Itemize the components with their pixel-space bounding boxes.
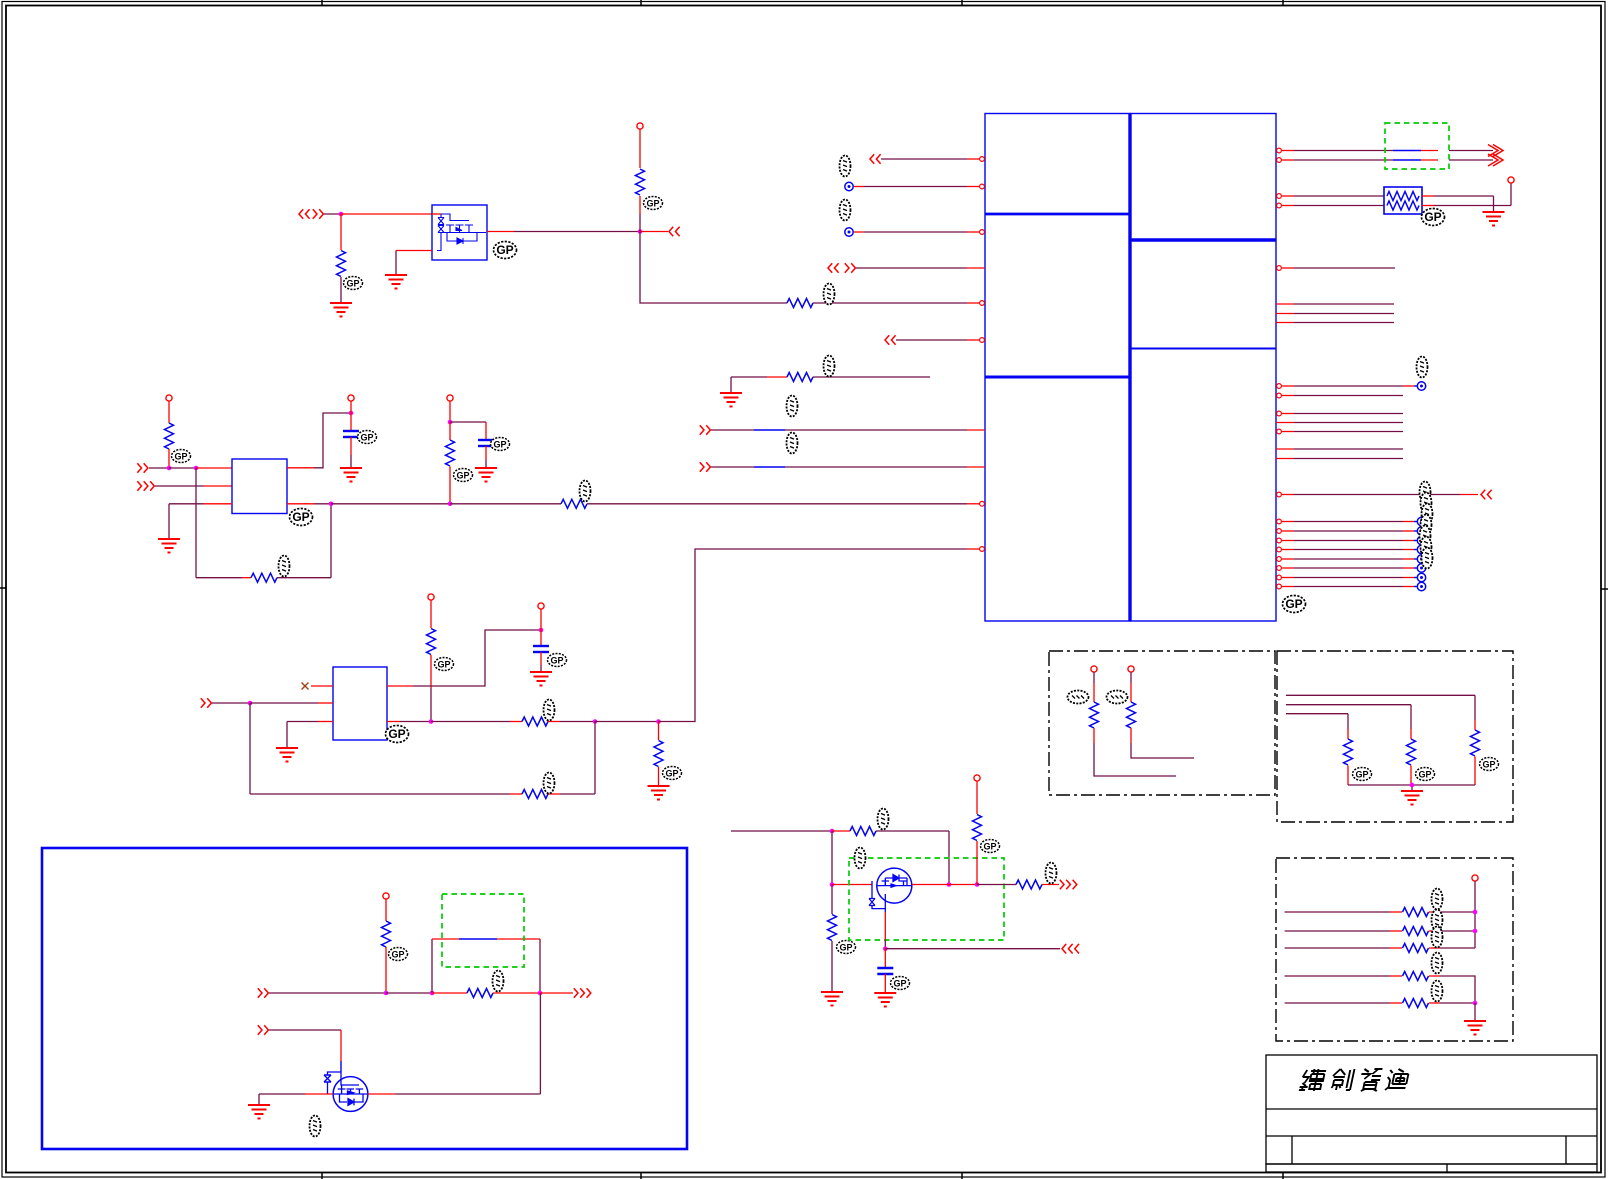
resistor R28 series xyxy=(432,989,540,998)
label R7 designator xyxy=(580,481,591,502)
test pad TP3 xyxy=(1277,382,1426,390)
choke L1 dual resistor pack xyxy=(1384,187,1422,214)
resistor R17 xyxy=(1344,714,1353,785)
label R3 designator xyxy=(824,284,835,305)
pin U3 out2 stub xyxy=(387,721,431,723)
resistor R8 pull-up xyxy=(427,600,436,722)
resistor R12 to ground floating net xyxy=(720,373,930,407)
resistor R2 pull-up xyxy=(636,129,645,232)
wire B net3 xyxy=(1286,713,1348,715)
pin U1 cluster pin 7 with test pad xyxy=(1277,573,1426,581)
pin U1 R7 stub wire xyxy=(1276,313,1394,315)
power VCC6 xyxy=(538,603,544,609)
pin Q1 source stub xyxy=(396,250,432,252)
power VCC5 xyxy=(428,594,434,600)
svg-text:GP: GP xyxy=(1285,597,1302,611)
pin U3 in stub xyxy=(250,702,333,704)
resistor R6 xyxy=(446,422,455,504)
pin U3 out1 stub xyxy=(387,685,413,687)
junction J9 xyxy=(248,701,253,706)
wire net Q5 top left xyxy=(731,830,832,832)
label R18 designator xyxy=(1432,889,1443,910)
pin U1 R8 stub wire xyxy=(1276,322,1394,324)
label net designator B xyxy=(787,433,798,454)
power VCC8 xyxy=(1091,666,1097,672)
power VCC11 xyxy=(974,775,980,781)
title block xyxy=(1266,1055,1597,1172)
junction J18 xyxy=(830,829,835,834)
module box blue xyxy=(42,848,687,1149)
label GP C2 xyxy=(491,438,510,451)
filter FB1 green box xyxy=(1385,123,1449,169)
pin U1 R13 stub wire xyxy=(1277,429,1403,434)
resistor R4 pull-up xyxy=(165,401,174,468)
pin U1 cluster pin 3 with test pad xyxy=(1277,536,1426,544)
junction J21 xyxy=(883,946,888,951)
wire Q5 source down xyxy=(884,912,886,949)
pin U1 L10 circle xyxy=(980,501,985,506)
svg-text:GP: GP xyxy=(346,279,359,289)
junction J22 xyxy=(975,882,980,887)
label GP C3 xyxy=(548,654,567,667)
ground R24 xyxy=(821,992,843,1006)
ground Q1 source xyxy=(385,275,407,289)
wire feedback J4 down xyxy=(195,468,197,578)
IC U3 box xyxy=(333,667,387,740)
svg-text:GP: GP xyxy=(983,842,996,852)
pin U1 R16 wire with node arrow xyxy=(1277,490,1492,500)
wire Q1 source to ground xyxy=(395,251,397,276)
junction J6 xyxy=(349,411,354,416)
junction J17 xyxy=(1473,1001,1478,1006)
resistor R18 series xyxy=(1285,908,1475,917)
wire J1 to Q1 gate xyxy=(341,213,432,215)
label GP R2 xyxy=(644,197,663,210)
wire Q5 drain to J22 xyxy=(912,884,977,886)
wire VCC3 to J6 xyxy=(350,401,352,413)
wire J21 to off-page arrow xyxy=(885,944,1079,954)
resistor R23 xyxy=(832,827,949,836)
wire B common to ground xyxy=(1348,785,1475,791)
pin U1 L9 with node arrow and blue segment xyxy=(700,462,985,472)
label R22 designator xyxy=(1432,981,1443,1002)
label TP1 designator xyxy=(840,156,851,177)
junction J15 xyxy=(1473,910,1478,915)
ground R10 xyxy=(648,786,670,800)
pin U2 gnd stub and ground xyxy=(158,504,232,553)
wire B net2 xyxy=(1286,704,1411,706)
option box A dash-dot xyxy=(1049,651,1275,795)
wire VCC6 to J10 xyxy=(540,609,542,630)
junction J12 xyxy=(593,719,598,724)
resistor R25 pull-up xyxy=(973,781,982,885)
resistor R13 pull-up xyxy=(1090,672,1177,776)
power VCC1 xyxy=(637,123,643,129)
svg-text:GP: GP xyxy=(437,660,450,670)
junction J5 xyxy=(329,502,334,507)
pin U1 L4 bidir arrow xyxy=(828,263,985,273)
pin U1 R3 wire to choke xyxy=(1277,194,1384,199)
label GP R16 xyxy=(1416,768,1435,781)
svg-text:GP: GP xyxy=(174,452,187,462)
label R5 designator xyxy=(279,556,290,577)
wire J5 to J7 xyxy=(331,503,450,505)
resistor R16 xyxy=(1407,705,1416,785)
svg-text:GP: GP xyxy=(646,199,659,209)
pin U1 L5 circle xyxy=(980,301,985,306)
junction J14 xyxy=(1410,783,1415,788)
junction J4 xyxy=(194,466,199,471)
label TP3 designator xyxy=(1417,357,1428,378)
svg-text:GP: GP xyxy=(493,440,506,450)
junction J11 xyxy=(429,719,434,724)
junction J3 xyxy=(167,466,172,471)
wire VCC4 down xyxy=(449,401,451,422)
junction J7 xyxy=(448,502,453,507)
label GP R27 xyxy=(389,948,408,961)
junction J2 xyxy=(638,229,643,234)
label R9 designator xyxy=(544,700,555,721)
option box B dash-dot xyxy=(1277,651,1513,822)
wire U2 out1 to C1 node xyxy=(314,413,351,468)
subcircuit Q5 green box xyxy=(849,858,1004,940)
label GP R8 xyxy=(435,658,454,671)
pin U3 gnd stub and ground xyxy=(276,722,333,762)
label GP R4 xyxy=(172,450,191,463)
ground C4 xyxy=(874,993,896,1007)
wire feedback up to J12 xyxy=(594,722,596,795)
pin U1 cluster pin 1 with test pad xyxy=(1277,517,1426,525)
wire VCC10 down xyxy=(1474,881,1476,948)
resistor R22 series xyxy=(1285,999,1475,1008)
pin Q1 gate stub xyxy=(432,213,441,215)
wire choke out1 to ground xyxy=(1422,196,1494,212)
label GP R6 xyxy=(454,469,473,482)
label GP L1 xyxy=(1422,209,1445,226)
junction J10 xyxy=(539,628,544,633)
wire R23 down to drain xyxy=(948,831,950,885)
wire J23 to J24 xyxy=(386,992,432,994)
node IN1 off-page connector xyxy=(299,209,323,219)
pin U1 cluster pin 2 with test pad xyxy=(1277,527,1426,535)
pin U1 L8 with node arrow and blue segment xyxy=(700,425,985,435)
wire out2 to J5 xyxy=(314,503,331,505)
ground box B xyxy=(1401,791,1423,805)
transistor Q2 MOSFET xyxy=(324,1072,368,1111)
label GP R15 xyxy=(1480,758,1499,771)
wire choke out2 to VCC7 xyxy=(1422,183,1511,206)
power VCC4 xyxy=(447,395,453,401)
label TP2 designator xyxy=(840,200,851,221)
pin U1 R12 stub wire xyxy=(1276,422,1403,424)
wire B net1 xyxy=(1286,694,1475,696)
svg-text:GP: GP xyxy=(360,433,373,443)
pin U1 R11 stub wire xyxy=(1277,411,1403,416)
resistor R19 series xyxy=(1285,927,1475,936)
junction J8 xyxy=(448,420,453,425)
label Q5 designator xyxy=(855,848,866,869)
node IN6 arrow xyxy=(258,1025,341,1035)
pin U1 L1 with node arrow xyxy=(870,154,984,164)
wire feedback J9 down xyxy=(249,703,251,794)
svg-text:GP: GP xyxy=(665,769,678,779)
label R12 designator xyxy=(824,356,835,377)
wire J12 to J13 xyxy=(595,721,659,723)
pin U2 in1 stub xyxy=(196,467,232,469)
label net designator A xyxy=(787,396,798,417)
label GP R1 xyxy=(344,277,363,290)
label R20 designator xyxy=(1432,927,1443,948)
svg-text:GP: GP xyxy=(1355,770,1368,780)
resistor R14 pull-up xyxy=(1127,672,1195,758)
junction J1 xyxy=(339,212,344,217)
pin U2 out1 stub xyxy=(287,467,314,469)
label GP R24 xyxy=(837,941,856,954)
option box C dash-dot xyxy=(1276,858,1513,1041)
label R23 designator xyxy=(878,809,889,830)
ground choke xyxy=(1483,212,1505,226)
wire to ground box C xyxy=(1474,1003,1476,1021)
pin U3 nc stub with no-connect X xyxy=(302,683,334,690)
power VCC3 xyxy=(348,395,354,401)
company name text xyxy=(1299,1069,1410,1091)
label GP C1 xyxy=(358,431,377,444)
junction J20 xyxy=(830,882,835,887)
label R21 designator xyxy=(1432,953,1443,974)
jumper green box xyxy=(442,894,524,967)
capacitor C3 xyxy=(533,630,549,672)
label GP U1 xyxy=(1283,596,1306,613)
transistor Q5 MOSFET xyxy=(869,868,912,912)
node IN5 arrow xyxy=(258,988,386,998)
svg-text:GP: GP xyxy=(388,727,405,741)
label Q2 designator xyxy=(310,1116,321,1137)
pin stub U1 left y549 xyxy=(967,548,980,550)
ground C3 xyxy=(530,672,552,686)
svg-text:GP: GP xyxy=(1424,210,1441,224)
junction J13 xyxy=(656,719,661,724)
svg-text:GP: GP xyxy=(893,979,906,989)
resistor R27 pull-up xyxy=(382,899,391,993)
resistor R1 xyxy=(337,214,346,303)
power VCC2 xyxy=(166,395,172,401)
resistor R24 to ground xyxy=(828,885,837,993)
wire J2 down-right to U1 xyxy=(640,232,787,304)
resistor R5 feedback xyxy=(196,573,331,582)
junction J19 xyxy=(947,882,952,887)
label R19 designator xyxy=(1432,910,1443,931)
ground box C xyxy=(1464,1021,1486,1035)
label GP U3 xyxy=(386,726,409,743)
label GP Q1 xyxy=(494,242,517,259)
pin U1 R4 wire to choke xyxy=(1277,203,1384,208)
wire J18 down to J20 xyxy=(831,831,833,885)
resistor R7 series xyxy=(450,499,980,508)
IC U2 box xyxy=(232,459,287,514)
label R11 designator xyxy=(544,773,555,794)
test pad TP1 xyxy=(845,182,985,190)
resistor R26 series to output xyxy=(977,880,1077,890)
wire Q1 drain to junction J2 xyxy=(514,231,640,233)
ground C2 xyxy=(475,468,497,482)
wire IN6 to Q2 gate xyxy=(340,1030,342,1072)
resistor R20 series xyxy=(1285,944,1475,953)
svg-text:GP: GP xyxy=(1482,760,1495,770)
label GP U2 xyxy=(290,509,313,526)
pin U1 R1 wire to connector xyxy=(1277,148,1493,153)
label R28 designator xyxy=(493,971,504,992)
label GP R25 xyxy=(981,840,1000,853)
transistor Q1 dual-MOSFET package xyxy=(385,205,487,289)
wire J20 to Q5 gate xyxy=(832,884,872,886)
pin U1 R10 stub wire xyxy=(1277,393,1403,398)
svg-text:GP: GP xyxy=(1418,770,1431,780)
label GP R10 xyxy=(663,767,682,780)
pin U1 R6 stub wire xyxy=(1276,303,1394,305)
pin U1 L6 with node arrow xyxy=(885,335,984,345)
pin U1 cluster pin 6 with test pad xyxy=(1277,564,1426,572)
power VCC10 xyxy=(1472,875,1478,881)
label cluster designators stack xyxy=(1420,482,1433,569)
capacitor C2 xyxy=(450,422,494,468)
label R26 designator xyxy=(1046,863,1057,884)
wire feedback up to J5 xyxy=(330,504,332,578)
label R14 designator xyxy=(1107,691,1128,704)
capacitor C1 xyxy=(343,413,359,468)
node OUT1 arrow xyxy=(540,988,591,998)
junction J25 xyxy=(538,991,543,996)
ground C1 xyxy=(340,468,362,482)
node NET1 off-page arrow xyxy=(640,227,680,237)
resistor R3 series xyxy=(787,299,980,308)
pin Q1 drain stub xyxy=(487,231,514,233)
resistor R15 xyxy=(1471,695,1480,785)
pin U2 out2 stub xyxy=(287,503,314,505)
svg-text:GP: GP xyxy=(292,510,309,524)
resistor R21 series xyxy=(1285,972,1475,1004)
svg-text:GP: GP xyxy=(839,943,852,953)
junction J16 xyxy=(1473,929,1478,934)
wire Q2 drain to J25 xyxy=(368,993,540,1094)
label GP R17 xyxy=(1353,768,1372,781)
resistor R11 feedback xyxy=(250,790,595,799)
wire Q2 source to ground xyxy=(259,1094,333,1105)
capacitor C4 xyxy=(877,949,893,993)
wire IN1 to junction xyxy=(324,213,341,215)
wire out1 to C3 node xyxy=(413,630,541,686)
node IN3 arrow xyxy=(137,481,232,491)
junction J24 xyxy=(430,991,435,996)
junction J23 xyxy=(384,991,389,996)
pin U1 R14 stub wire xyxy=(1276,448,1403,450)
power VCC12 xyxy=(383,893,389,899)
label R13 designator xyxy=(1068,691,1089,704)
svg-text:GP: GP xyxy=(391,950,404,960)
node IN2 arrow xyxy=(137,463,169,473)
pin U1 cluster pin 8 with test pad xyxy=(1277,582,1426,590)
svg-text:GP: GP xyxy=(550,656,563,666)
pin U1 L11 circle xyxy=(980,547,985,552)
zener D1 at Q2 gate xyxy=(324,1072,341,1094)
pin U1 R2 wire to connector xyxy=(1277,158,1493,163)
svg-text:GP: GP xyxy=(496,243,513,257)
power VCC9 xyxy=(1128,666,1134,672)
power VCC7 xyxy=(1508,177,1514,183)
resistor R10 to ground xyxy=(654,722,663,787)
wire J13 to U1 pin xyxy=(659,549,968,722)
label GP C4 xyxy=(891,977,910,990)
node IN4 arrow xyxy=(201,698,250,708)
connector dual off-page arrow right xyxy=(1488,145,1503,167)
pin U1 R15 stub wire xyxy=(1276,458,1403,460)
test pad TP2 xyxy=(845,228,985,236)
wire bypass up and over xyxy=(432,939,540,993)
pin U1 cluster pin 5 with test pad xyxy=(1277,555,1426,563)
svg-text:GP: GP xyxy=(456,471,469,481)
ground R1 xyxy=(330,303,352,317)
ground Q2 xyxy=(248,1105,270,1119)
resistor R9 series xyxy=(431,717,595,726)
pin U1 R5 stub wire xyxy=(1277,266,1395,271)
IC U1 main block xyxy=(985,114,1276,622)
pin U1 cluster pin 4 with test pad xyxy=(1277,545,1426,553)
wire J3 to J4 xyxy=(169,467,196,469)
